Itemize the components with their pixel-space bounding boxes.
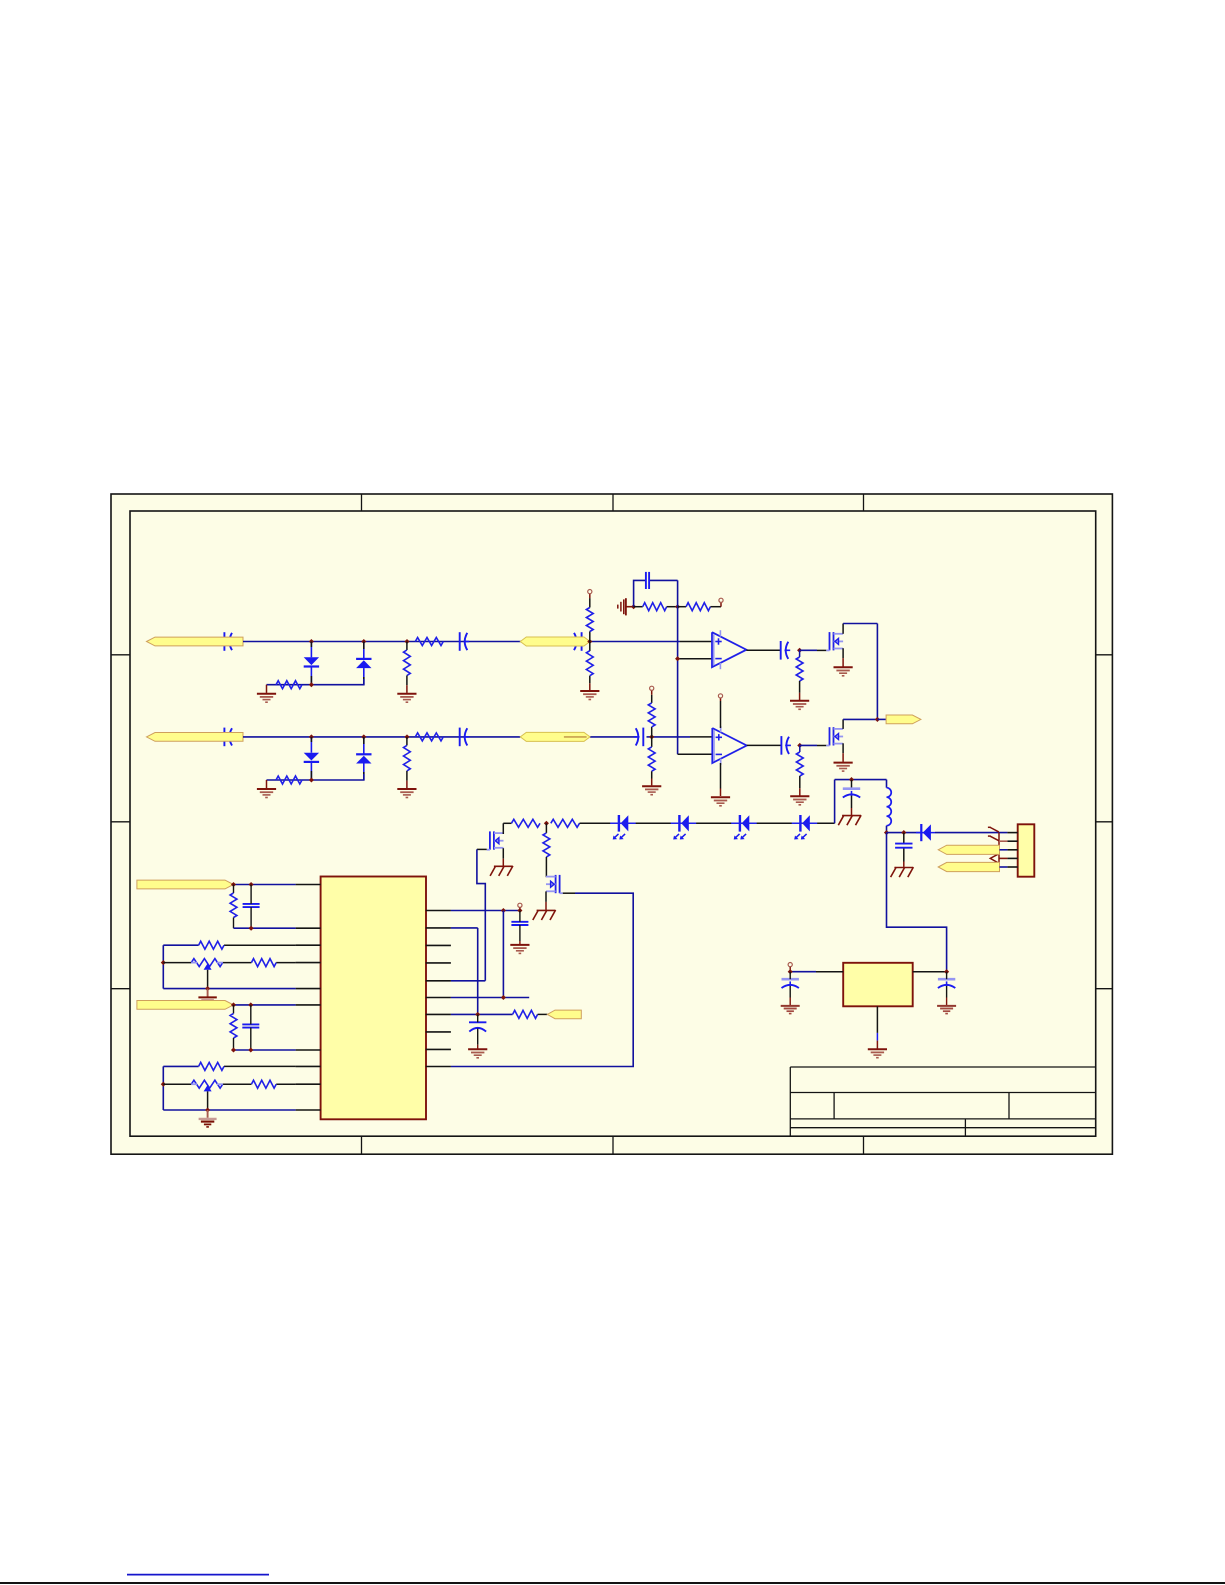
diode D9 [916, 824, 935, 841]
capacitor C7 (series) [460, 728, 470, 747]
ground C13 [781, 1006, 800, 1014]
node boost out junction [884, 830, 889, 835]
wire Q4 gate net [451, 893, 633, 1066]
capacitor C4 (feedback) [646, 572, 649, 589]
node ch2 rail junction [309, 777, 314, 782]
net label ch1 [520, 637, 590, 646]
ground ch2 divider [642, 786, 661, 795]
node fb-a junction [631, 604, 636, 609]
node op1 minus junction [675, 656, 680, 661]
transistor Q3 [487, 831, 504, 849]
terminal reg out [788, 963, 792, 972]
wire op2 vplus [720, 698, 722, 728]
capacitor C13 [782, 972, 799, 1006]
wire R2 net [451, 928, 478, 1015]
chassis ground Q3 [490, 866, 513, 876]
capacitor C9 (op2 out) [781, 736, 791, 755]
resistor R14 (gate pulldown 2) [796, 745, 803, 795]
node P5 junction [231, 1002, 236, 1007]
wire op2 vminus [720, 763, 722, 796]
wire P5 row [234, 1004, 296, 1006]
resistor R8 (gate pulldown 1) [796, 650, 803, 700]
title block [790, 1067, 1095, 1136]
wire Q2 drain [843, 719, 877, 729]
ground Q1 [834, 667, 853, 676]
node R1-a junction [501, 908, 506, 913]
wire fb vertical [677, 580, 679, 754]
resistor R9 (clamp bias) [276, 776, 302, 784]
wire ch2 pullup [651, 690, 653, 737]
wire P4 row [234, 884, 296, 886]
port A (to J1) [938, 845, 1007, 854]
net label ch2 [520, 732, 590, 741]
node ch1-c junction [404, 639, 409, 644]
node C14 bottom junction [249, 926, 254, 931]
resistor R7 (offset) [678, 603, 721, 611]
wire op2 to Q2 gate [800, 744, 827, 746]
wire P4 lower rail [234, 927, 296, 929]
node R7 junction [475, 1012, 480, 1017]
op-amp U1A [712, 630, 746, 669]
wire ch2 main [243, 736, 712, 738]
wire R7 net [451, 1013, 513, 1015]
diode D3 [304, 753, 319, 762]
node R6 junction [501, 995, 506, 1000]
wire ch1 main [243, 641, 712, 643]
wire LED rail up [835, 780, 887, 824]
LED D8 [792, 815, 818, 840]
node ch2-d junction [649, 734, 654, 739]
node C11 junction [901, 830, 906, 835]
node out junction [875, 717, 880, 722]
node ch2-a junction [309, 734, 314, 739]
node op2 out junction [797, 743, 802, 748]
terminal op2 vplus [718, 694, 722, 698]
wire resnet1 row2 [163, 962, 295, 964]
wire D2 leads [363, 642, 365, 685]
node ch1-d junction [587, 639, 592, 644]
ground regulator [868, 1049, 887, 1058]
wire Q1 source [842, 648, 844, 666]
resistor R3 (series) [415, 638, 443, 646]
wire to out port [877, 718, 886, 720]
node resnet2 wiper junction [205, 1107, 210, 1112]
wire ch2 clamp rail [267, 774, 364, 788]
ground ch1 divider [580, 691, 599, 700]
wire D1 leads [310, 642, 312, 685]
resistor R2 (shunt) [404, 642, 411, 693]
trimmer RV1 [191, 959, 222, 989]
sheet outer border [111, 494, 1112, 1154]
wire D3 leads [310, 737, 312, 780]
node C15 bottom junction [248, 1047, 253, 1052]
footer bottom rule [0, 1582, 1225, 1584]
resistor R15 (LED rail) [511, 819, 540, 827]
capacitor C6 (under port P2) [224, 728, 234, 747]
resistor R16 (LED rail 2) [551, 819, 580, 827]
input port P4 [137, 880, 234, 889]
wire Q3 gate net [451, 849, 487, 980]
wire ch2 pulldown [651, 737, 653, 786]
trimmer RV2 [191, 1080, 222, 1110]
wire boost to regulator [887, 833, 947, 972]
output port P3 [886, 715, 921, 724]
wire Q4 source [545, 891, 547, 909]
resistor R12 (pull-up) [648, 703, 655, 727]
no-ERC slash pin2 [988, 836, 1008, 841]
ground ch1 shunt [397, 694, 416, 703]
wire R6 net [451, 997, 529, 999]
ground C12 [937, 1006, 956, 1014]
input port P2 [147, 733, 244, 742]
resistor R13 (pull-down) [648, 747, 655, 771]
wire op1 to Q1 gate [800, 649, 827, 651]
capacitor C14 [243, 885, 260, 929]
wire reg gnd [876, 1006, 878, 1048]
capacitor C8 (series 2) [634, 728, 644, 747]
resistor R19 [199, 941, 224, 949]
wire D4 leads [363, 737, 365, 780]
terminal R1 net [518, 903, 522, 910]
diode D2 [356, 659, 371, 668]
ground ch1 clamp [257, 694, 276, 703]
transistor Q1 [826, 632, 843, 650]
node resnet1 junction [161, 960, 166, 965]
diode D4 [356, 754, 371, 763]
capacitor C3 (under label) [572, 632, 582, 651]
capacitor C12 [938, 972, 955, 1006]
LED D6 [671, 815, 697, 840]
resistor R18 [230, 885, 237, 929]
ground op2 [711, 797, 730, 806]
terminal fb [719, 598, 723, 602]
ground Q2 [834, 763, 853, 772]
wire R1-R6 vertical [502, 911, 504, 998]
ground C17 [468, 1049, 487, 1058]
wire resnet1 row1 [163, 944, 295, 946]
wire resnet2 rail [162, 1066, 164, 1110]
node LED rail junction [544, 821, 549, 826]
sheet inner border [130, 511, 1096, 1136]
no-ERC slash pin1 [988, 827, 999, 832]
node R1-b junction [517, 908, 522, 913]
wire reg output [790, 971, 843, 973]
resistor R10 (shunt) [404, 737, 411, 788]
LED D5 [610, 815, 636, 840]
node reg out junction [788, 969, 793, 974]
regulator U2 [843, 963, 913, 1007]
node P5 rail junction [231, 1047, 236, 1052]
wire ch1 pulldown [589, 642, 591, 691]
wire R1 net [451, 910, 520, 912]
node ch1-b junction [361, 639, 366, 644]
net label R7 [547, 1010, 581, 1019]
resistor R21 [230, 1005, 237, 1050]
terminal ch1 pull-up [588, 590, 592, 594]
ground fb (left style) [618, 598, 634, 615]
wire fb cap loop [634, 580, 678, 606]
wire op2 minus input [678, 753, 713, 755]
capacitor C2 (series) [460, 632, 470, 651]
wire ch1 pullup [589, 594, 591, 642]
resistor R4 (pull-up) [586, 608, 593, 632]
IC U3 left pins [296, 885, 321, 1111]
wire C11 lead [903, 833, 905, 867]
node ch1 rail junction [309, 682, 314, 687]
capacitor C11 [895, 844, 912, 848]
no-ERC chevron pin4 [990, 854, 1007, 862]
node resnet1 wiper junction [205, 986, 210, 991]
input port P1 [147, 637, 244, 646]
wire diode to connector [935, 832, 1007, 834]
capacitor C1 (under port P1) [224, 632, 234, 651]
wire op1 minus input [678, 658, 712, 660]
wire C10 lead [851, 780, 853, 815]
capacitor C17 [469, 1014, 486, 1048]
wire boost out [887, 832, 922, 834]
resistor R24 [513, 1010, 548, 1018]
ground C16 [510, 945, 529, 954]
input port P5 [137, 1001, 234, 1010]
wire resnet1 row3 [163, 988, 295, 990]
ground resnet2 [199, 1110, 217, 1127]
ground ch2 clamp [257, 789, 276, 798]
wire Q1 drain [843, 624, 877, 720]
capacitor C10 (boost) [843, 789, 860, 798]
node resnet2 junction [161, 1082, 166, 1087]
node ch2-c junction [404, 734, 409, 739]
capacitor C5 (op1 out) [781, 641, 791, 660]
node C15 top junction [248, 1002, 253, 1007]
chassis ground C10 [838, 815, 861, 825]
chassis ground C11 [891, 867, 914, 877]
ground op1 gate [790, 701, 809, 710]
wire resnet2 row3 [163, 1109, 295, 1111]
capacitor C16 [511, 911, 528, 945]
diode D1 [304, 657, 319, 666]
wire op1 out [746, 649, 780, 651]
resistor R17 (Q4 drain) [543, 823, 550, 877]
op-amp U1B [712, 726, 746, 765]
connector J1 [1018, 824, 1035, 876]
wire resnet2 row2 [163, 1083, 295, 1085]
ground ch2 shunt [397, 789, 416, 798]
wire ch1 clamp rail [267, 679, 364, 693]
port B (to J1) [938, 862, 1007, 871]
node fb-b junction [675, 604, 680, 609]
resistor R22 [199, 1062, 224, 1070]
wire op2 out [747, 744, 782, 746]
node op1 out junction [797, 648, 802, 653]
wire Q3 source [502, 848, 504, 866]
chassis ground Q4 [533, 910, 556, 920]
IC U3 [321, 877, 426, 1120]
node C14 top junction [249, 882, 254, 887]
node P4 junction [231, 882, 236, 887]
node boost top junction [849, 777, 854, 782]
wire LED chain [580, 822, 835, 824]
node ch1-a junction [309, 639, 314, 644]
wire Q3 drain [503, 823, 511, 834]
LED D7 [731, 815, 757, 840]
capacitor C15 [242, 1005, 259, 1050]
resistor R6 (feedback) [634, 603, 678, 611]
wire resnet1 rail [162, 945, 164, 988]
transistor Q4 [546, 875, 563, 893]
connector J1 pins [1007, 833, 1017, 867]
border zone ticks [111, 494, 1112, 1154]
resistor R23 [251, 1080, 276, 1088]
wire resnet2 row1 [163, 1065, 295, 1067]
transistor Q2 [826, 727, 843, 745]
no-ERC bus line [998, 833, 1000, 863]
node ch2-b junction [361, 734, 366, 739]
terminal ch2 pull-up [650, 686, 654, 690]
resistor R5 (pull-down) [586, 651, 593, 676]
resistor R20 [251, 959, 276, 967]
node reg in junction [944, 969, 949, 974]
ground op2 gate [790, 796, 809, 805]
wire P5 lower rail [234, 1049, 296, 1051]
footer hyperlink underline [127, 1574, 269, 1576]
inductor L1 [887, 780, 892, 833]
wire reg input [913, 971, 947, 973]
IC U3 right pins [426, 911, 451, 1067]
resistor R11 (series) [415, 733, 443, 741]
ground resnet1 [198, 989, 216, 1000]
wire Q2 source [842, 743, 844, 762]
resistor R1 (clamp bias) [276, 681, 302, 689]
